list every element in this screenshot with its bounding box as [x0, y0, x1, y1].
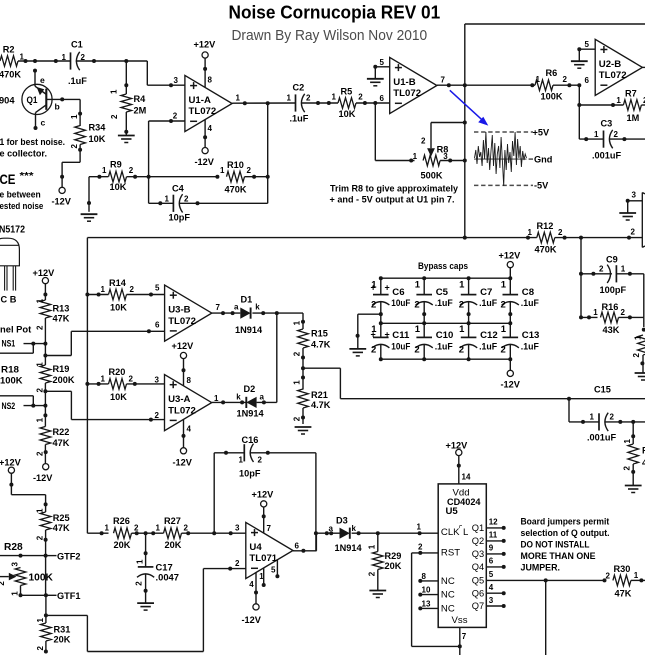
- svg-text:Noise Cornucopia REV 01: Noise Cornucopia REV 01: [229, 3, 441, 23]
- svg-text:***: ***: [20, 170, 35, 182]
- svg-text:2: 2: [614, 130, 619, 139]
- note text left (clipped) line1: [0, 137, 65, 147]
- svg-text:+12V: +12V: [0, 458, 22, 468]
- svg-text:RST: RST: [441, 548, 460, 559]
- wire U3-B pin6 branch: [45, 329, 164, 355]
- svg-text:R34: R34: [89, 123, 107, 133]
- svg-text:1: 1: [62, 53, 67, 62]
- svg-text:2: 2: [631, 227, 636, 236]
- wire left distribution riser: [85, 238, 89, 534]
- svg-text:1: 1: [110, 89, 119, 94]
- resistor C15-side vertical (clipped): [623, 422, 645, 485]
- wire D2 to join: [257, 313, 277, 404]
- svg-text:D3: D3: [336, 516, 348, 526]
- wire R15 junction to right edge: [340, 397, 645, 401]
- wire noise distribution (long horizontal): [87, 236, 536, 240]
- svg-text:2: 2: [414, 345, 419, 356]
- svg-text:-12V: -12V: [33, 473, 53, 483]
- svg-text:.1uF: .1uF: [435, 340, 453, 351]
- waveform +5V dashed line: [474, 131, 533, 133]
- svg-text:2: 2: [235, 559, 240, 568]
- svg-text:1: 1: [459, 324, 465, 335]
- svg-text:NC: NC: [441, 590, 455, 601]
- svg-text:Q2: Q2: [472, 536, 484, 546]
- resistor R10: [220, 160, 270, 195]
- svg-text:-5V: -5V: [534, 181, 549, 191]
- svg-text:1: 1: [616, 96, 621, 105]
- svg-text:20K: 20K: [114, 540, 131, 550]
- svg-text:3: 3: [489, 596, 494, 605]
- svg-text:1: 1: [415, 280, 421, 291]
- svg-text:U3-A: U3-A: [168, 394, 190, 405]
- capacitor C6: [371, 278, 411, 323]
- svg-text:2: 2: [129, 166, 134, 175]
- svg-text:2: 2: [414, 300, 419, 311]
- resistor R12: [528, 221, 643, 255]
- label 904 (clipped 2N3904): [0, 95, 15, 105]
- ground (R9): [81, 214, 98, 221]
- svg-text:TL072: TL072: [599, 70, 627, 81]
- note text left (clipped) line2: [0, 148, 47, 158]
- note text left line3: [0, 189, 41, 199]
- wire U2-A pin3 to ground: [626, 191, 643, 213]
- wire U1-B output: [437, 83, 467, 87]
- note Board jumpers line2: [521, 527, 610, 538]
- svg-text:4.7K: 4.7K: [311, 400, 331, 410]
- svg-text:.1uF: .1uF: [521, 297, 539, 308]
- svg-text:C B: C B: [1, 294, 17, 304]
- svg-text:2: 2: [36, 646, 45, 651]
- svg-text:2: 2: [155, 411, 160, 420]
- svg-text:C8: C8: [522, 287, 535, 298]
- wire U1-A pin8 to +12V: [203, 58, 207, 87]
- ground (C17): [137, 603, 154, 610]
- trimmer R8: [375, 121, 467, 181]
- svg-text:U3-B: U3-B: [168, 305, 190, 316]
- label CLK: [441, 525, 469, 538]
- svg-text:1: 1: [593, 308, 598, 317]
- pin Q2 label: [472, 531, 506, 546]
- svg-text:2: 2: [606, 572, 611, 581]
- svg-text:+5V: +5V: [533, 127, 550, 137]
- wire bypass mid rail: [379, 321, 513, 325]
- op-amp U2-A (clipped): [642, 193, 645, 248]
- svg-text:U2-B: U2-B: [599, 59, 621, 70]
- svg-text:C4: C4: [172, 184, 185, 194]
- svg-text:1: 1: [621, 264, 626, 273]
- wire D1 to R15: [252, 311, 303, 329]
- svg-text:4: 4: [208, 124, 213, 133]
- svg-text:7: 7: [462, 632, 467, 641]
- wire pot top: [0, 554, 46, 558]
- svg-text:1: 1: [287, 94, 292, 103]
- wire node A to C1: [33, 59, 71, 63]
- svg-text:1: 1: [101, 285, 106, 294]
- svg-text:2: 2: [459, 300, 464, 311]
- wire bypass -12V rail: [379, 357, 513, 361]
- svg-text:NC: NC: [441, 576, 455, 587]
- svg-text:1: 1: [36, 618, 45, 623]
- svg-text:C5: C5: [436, 287, 449, 298]
- terminal -12V (U4): [242, 604, 262, 625]
- wire U5 pin7 Vss: [458, 627, 467, 655]
- svg-text:10: 10: [422, 586, 431, 595]
- svg-text:3: 3: [174, 76, 179, 85]
- note heading CE *** (clipped): [0, 170, 35, 187]
- svg-text:8: 8: [422, 572, 427, 581]
- svg-text:7: 7: [267, 524, 272, 533]
- svg-text:1: 1: [415, 324, 421, 335]
- svg-text:2: 2: [258, 456, 263, 465]
- svg-text:1: 1: [214, 394, 219, 403]
- svg-text:1 for best noise.: 1 for best noise.: [0, 137, 65, 147]
- svg-text:Trim R8 to give approximately: Trim R8 to give approximately: [330, 182, 459, 193]
- svg-text:1: 1: [590, 413, 595, 422]
- svg-text:U4: U4: [249, 542, 262, 553]
- svg-text:1: 1: [105, 524, 110, 533]
- wire U3-A output: [212, 400, 247, 404]
- svg-text:20K: 20K: [165, 540, 182, 550]
- svg-text:3: 3: [155, 376, 160, 385]
- subtitle text: [232, 27, 428, 44]
- diode D1: [234, 295, 263, 335]
- svg-text:100pF: 100pF: [600, 285, 627, 295]
- svg-text:C16: C16: [242, 435, 259, 445]
- svg-text:2: 2: [501, 300, 506, 311]
- wire GTF1 down: [44, 595, 48, 623]
- svg-text:.1uF: .1uF: [479, 340, 497, 351]
- pin Q1 label: [472, 518, 506, 533]
- resistor R29: [367, 533, 401, 590]
- wire U4 output: [293, 531, 318, 553]
- label NC3: [441, 603, 455, 614]
- resistor R6: [465, 68, 582, 102]
- pin Q6 label: [472, 583, 506, 598]
- svg-text:3: 3: [632, 191, 637, 200]
- svg-text:R29: R29: [385, 551, 402, 561]
- svg-text:C9: C9: [606, 254, 618, 264]
- svg-text:ested noise: ested noise: [0, 201, 43, 211]
- wire Q5 output: [486, 578, 606, 582]
- svg-text:2: 2: [599, 264, 604, 273]
- svg-text:1M: 1M: [627, 113, 640, 123]
- resistor R34: [70, 114, 106, 149]
- svg-text:+12V: +12V: [194, 40, 217, 50]
- svg-text:e between: e between: [0, 189, 41, 199]
- svg-text:2: 2: [247, 166, 252, 175]
- resistor right-edge vertical (clipped): [632, 317, 645, 372]
- wire U4 pin7 to +12V: [262, 507, 266, 533]
- net flag NS2: [0, 396, 47, 411]
- svg-text:2: 2: [563, 75, 568, 84]
- svg-text:2: 2: [418, 542, 423, 551]
- wire feedback right riser: [266, 101, 270, 203]
- svg-text:20K: 20K: [54, 635, 71, 645]
- svg-text:a: a: [260, 392, 265, 401]
- terminal -12V (Q1): [52, 187, 72, 206]
- svg-text:1: 1: [35, 298, 44, 303]
- svg-text:R16: R16: [602, 302, 619, 312]
- svg-text:c: c: [41, 118, 46, 128]
- resistor R22: [35, 406, 69, 464]
- capacitor C9: [579, 254, 644, 295]
- capacitor C1: [62, 40, 88, 87]
- svg-text:R5: R5: [341, 87, 353, 97]
- label U2-A pin2: [631, 227, 636, 236]
- svg-text:47K: 47K: [615, 589, 632, 599]
- svg-text:TL072: TL072: [189, 106, 217, 117]
- ground (R21): [295, 427, 312, 434]
- svg-text:2: 2: [371, 345, 376, 356]
- svg-text:GTF2: GTF2: [57, 551, 81, 561]
- svg-text:904: 904: [0, 95, 15, 105]
- svg-text:CLK: CLK: [441, 527, 460, 538]
- svg-text:-12V: -12V: [242, 615, 262, 625]
- resistor R31: [36, 618, 71, 654]
- svg-text:6: 6: [295, 542, 300, 551]
- svg-text:47K: 47K: [53, 314, 70, 324]
- wire U3-A pin8 to +12V: [182, 359, 186, 386]
- svg-text:14: 14: [462, 472, 471, 481]
- wire U1-A output: [232, 101, 295, 105]
- svg-text:e collector.: e collector.: [0, 148, 47, 158]
- terminal +12V (U1-A): [194, 40, 217, 59]
- svg-text:2: 2: [621, 308, 626, 317]
- svg-text:1: 1: [293, 380, 302, 385]
- resistor R26: [105, 516, 146, 550]
- svg-text:1: 1: [156, 524, 161, 533]
- svg-text:2: 2: [70, 144, 79, 149]
- svg-text:2: 2: [36, 535, 45, 540]
- wire U2-B feedback riser: [577, 85, 581, 139]
- svg-text:Q1: Q1: [27, 95, 38, 105]
- svg-text:1: 1: [536, 75, 541, 84]
- svg-text:1: 1: [236, 93, 241, 102]
- svg-text:R2: R2: [3, 45, 15, 55]
- svg-text:2: 2: [558, 228, 563, 237]
- terminal +12V (U3-A): [172, 341, 195, 359]
- svg-text:4: 4: [187, 425, 192, 434]
- svg-text:+12V: +12V: [172, 341, 195, 351]
- net flag GTF2: [44, 551, 81, 561]
- svg-text:470K: 470K: [0, 70, 21, 80]
- svg-text:Q4: Q4: [472, 562, 484, 572]
- svg-text:2: 2: [134, 524, 139, 533]
- svg-text:5: 5: [271, 566, 276, 575]
- svg-text:.1uF: .1uF: [479, 297, 497, 308]
- wire RST: [412, 542, 460, 646]
- label CD4024: [447, 497, 481, 508]
- resistor R15: [293, 320, 331, 368]
- svg-text:TL071: TL071: [249, 553, 277, 564]
- terminal -12V (bypass): [501, 359, 521, 389]
- svg-text:TL072: TL072: [393, 88, 421, 99]
- capacitor C17: [135, 533, 179, 602]
- terminal -12V (U1-A): [195, 148, 215, 167]
- wire right edge riser: [643, 274, 645, 318]
- svg-text:2: 2: [501, 345, 506, 356]
- svg-text:1: 1: [413, 152, 418, 161]
- resistor R4: [110, 59, 147, 134]
- label NC1: [441, 576, 455, 587]
- wire to D3: [316, 531, 340, 535]
- svg-text:1: 1: [371, 280, 377, 291]
- wire U5 pin14: [457, 456, 471, 484]
- wire bypass +12V rail: [379, 276, 513, 280]
- svg-text:1: 1: [101, 374, 106, 383]
- op-amp U2-B: [585, 39, 645, 95]
- resistor R7: [579, 89, 645, 123]
- capacitor C4: [149, 184, 268, 223]
- label R18 100K (clipped): [0, 365, 23, 387]
- svg-text:2: 2: [135, 581, 144, 586]
- wire U4 pin5 stub: [275, 559, 279, 578]
- svg-text:200K: 200K: [53, 375, 75, 385]
- terminal +12V (bypass): [499, 250, 522, 278]
- potentiometer R28: [0, 542, 53, 597]
- svg-text:4.7K: 4.7K: [311, 339, 331, 349]
- svg-text:470K: 470K: [225, 185, 247, 195]
- svg-text:1: 1: [501, 324, 507, 335]
- svg-text:6: 6: [380, 94, 385, 103]
- svg-text:GTF1: GTF1: [57, 591, 81, 601]
- wire U3-A pin4 to -12V: [182, 419, 186, 447]
- svg-text:1: 1: [220, 166, 225, 175]
- svg-text:10K: 10K: [89, 134, 106, 144]
- svg-text:TL072: TL072: [168, 405, 196, 416]
- svg-text:NS1: NS1: [2, 339, 16, 349]
- transistor package 2N5172 (clipped): [0, 238, 19, 304]
- svg-text:2: 2: [35, 451, 44, 456]
- label nel Pot (clipped Panel Pot): [0, 324, 31, 335]
- waveform -5V dashed line: [474, 184, 533, 186]
- svg-text:5: 5: [380, 58, 385, 67]
- pin Q5 label: [472, 570, 494, 585]
- wire U4 pin3: [212, 531, 246, 535]
- capacitor C3: [579, 119, 645, 161]
- svg-text:2: 2: [35, 388, 44, 393]
- svg-text:1N914: 1N914: [237, 408, 265, 418]
- svg-text:Q7: Q7: [472, 601, 484, 611]
- svg-text:D2: D2: [244, 384, 256, 394]
- terminal -12V (U3-A): [173, 448, 193, 468]
- label Vss: [452, 615, 468, 626]
- svg-text:1: 1: [634, 571, 639, 580]
- svg-text:10K: 10K: [339, 109, 356, 119]
- wire R26 R27 node: [144, 531, 164, 535]
- svg-text:NC: NC: [441, 603, 455, 614]
- op-amp U1-A: [173, 75, 241, 133]
- ground (bypass): [349, 349, 366, 356]
- ground (R4): [118, 132, 135, 143]
- svg-text:2: 2: [459, 345, 464, 356]
- svg-text:10K: 10K: [110, 392, 127, 402]
- svg-text:Gnd: Gnd: [534, 155, 552, 165]
- svg-text:1: 1: [501, 280, 507, 291]
- svg-text:6: 6: [585, 76, 590, 85]
- svg-text:7: 7: [441, 75, 446, 84]
- resistor R27: [151, 516, 214, 550]
- resistor R13: [35, 298, 69, 343]
- svg-text:1: 1: [371, 324, 377, 335]
- resistor R20: [87, 367, 164, 402]
- capacitor C16: [214, 435, 316, 551]
- svg-text:2: 2: [184, 195, 189, 204]
- svg-text:1: 1: [11, 591, 20, 596]
- svg-text:R20: R20: [109, 367, 126, 377]
- svg-text:10uF: 10uF: [391, 340, 410, 351]
- pin Q3 label: [472, 544, 506, 559]
- IC U5 CD4024 box: [438, 484, 486, 628]
- op-amp U1-B: [380, 57, 446, 113]
- svg-text:R19: R19: [53, 364, 70, 374]
- svg-text:Q1: Q1: [472, 523, 484, 533]
- diode D2: [236, 384, 264, 418]
- blue arrow: [450, 90, 489, 125]
- svg-text:1: 1: [293, 320, 302, 325]
- svg-text:5: 5: [585, 40, 590, 49]
- svg-text:3: 3: [11, 562, 20, 567]
- svg-text:2: 2: [623, 466, 632, 471]
- svg-text:+12V: +12V: [446, 440, 469, 450]
- svg-text:10uF: 10uF: [391, 297, 410, 308]
- svg-text:1: 1: [20, 53, 25, 62]
- wire U1-B pin5 to ground: [373, 65, 389, 79]
- resistor R14: [87, 278, 164, 313]
- resistor R21: [293, 368, 331, 424]
- svg-text:6: 6: [489, 557, 494, 566]
- svg-text:-12V: -12V: [173, 457, 193, 467]
- ground (R29): [369, 591, 386, 598]
- svg-text:C3: C3: [601, 119, 613, 129]
- svg-text:R21: R21: [311, 390, 328, 400]
- wire bypass ground tap: [356, 314, 381, 348]
- transistor Q1: [22, 69, 64, 130]
- resistor R2: [0, 45, 35, 80]
- note text left line4: [0, 201, 43, 211]
- svg-text:.1uF: .1uF: [521, 340, 539, 351]
- svg-text:k: k: [255, 303, 260, 312]
- svg-text:R30: R30: [614, 564, 631, 574]
- svg-text:Vss: Vss: [452, 615, 468, 626]
- capacitor C15: [569, 384, 645, 442]
- svg-text:1: 1: [594, 130, 599, 139]
- svg-text:8: 8: [187, 376, 192, 385]
- capacitor C5: [414, 278, 453, 323]
- svg-text:1: 1: [417, 523, 422, 532]
- svg-text:R9: R9: [110, 160, 122, 170]
- wire R15 R21 junction: [301, 366, 340, 399]
- svg-text:10pF: 10pF: [169, 213, 191, 223]
- wire D3 to CLK: [352, 531, 439, 535]
- svg-text:3: 3: [235, 524, 240, 533]
- terminal +12V (R13): [33, 268, 56, 284]
- svg-text:R4: R4: [134, 94, 147, 104]
- wire +12V to R13: [43, 284, 47, 300]
- label N5172 (clipped 2N5172): [0, 225, 25, 236]
- svg-text:2: 2: [0, 581, 6, 586]
- svg-text:-12V: -12V: [52, 197, 72, 207]
- svg-text:R10: R10: [227, 160, 244, 170]
- svg-text:20K: 20K: [385, 561, 402, 571]
- svg-text:2: 2: [293, 416, 302, 421]
- svg-text:100K: 100K: [541, 92, 563, 102]
- terminal +12V (U4): [252, 489, 275, 507]
- svg-text:C1: C1: [71, 40, 83, 50]
- note Trim R8 line2: [330, 193, 455, 204]
- label Vdd: [453, 488, 470, 499]
- label RST: [441, 548, 460, 559]
